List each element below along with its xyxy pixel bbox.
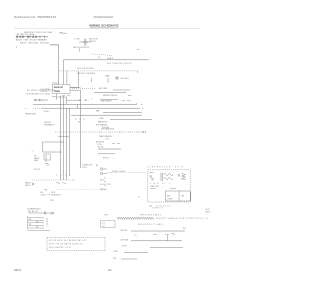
title underline (90, 27, 118, 29)
switch symbols (56, 183, 66, 184)
svg-text:YL-30: YL-30 (100, 189, 106, 191)
svg-text:START RELAY: START RELAY (112, 170, 127, 173)
plug marks column (104, 178, 107, 186)
freezer door switch S1 (79, 39, 91, 46)
svg-text:08/11: 08/11 (14, 268, 22, 272)
svg-text:-..=.: -..=. (31, 151, 34, 153)
stub mark (137, 49, 140, 51)
dashed evap feed (33, 107, 42, 109)
harness vertical 3 (66, 108, 68, 180)
connector box (44, 154, 51, 160)
svg-text:LT SW: LT SW (75, 38, 80, 40)
svg-text:SEE LIGHTING CIRCUIT: SEE LIGHTING CIRCUIT (107, 63, 132, 65)
wire cold control (41, 99, 48, 101)
cold control switch S2 (34, 99, 41, 101)
svg-text:RUN: RUN (167, 196, 170, 198)
relay marks (150, 188, 176, 190)
svg-text:DEF HTR: DEF HTR (121, 230, 128, 232)
svg-text:YL RD: YL RD (97, 144, 102, 146)
wire y90 (113, 89, 131, 91)
connector pin 1 (100, 168, 102, 170)
harness vertical 5 (80, 90, 82, 168)
vertical top ticks (62, 95, 70, 97)
connector pin 2 (100, 172, 102, 174)
svg-text:NO FROST COLD CONTROL: NO FROST COLD CONTROL (27, 90, 56, 92)
wire y149 (98, 148, 121, 150)
svg-text:DEF TSTAT: DEF TSTAT (121, 239, 129, 242)
svg-text:NOTE 3: NOTE 3 (103, 157, 109, 159)
power plug and cord P1 (16, 35, 48, 38)
relay pins (150, 176, 152, 178)
wire timer link (57, 97, 81, 104)
connector J2 (60, 32, 62, 34)
wire heater row (121, 258, 137, 260)
wire y92.4 (94, 92, 126, 94)
svg-text:COMPRESSOR NOTE: COMPRESSOR NOTE (147, 166, 184, 168)
svg-text:N-14: N-14 (40, 192, 43, 194)
wire y153.8 (98, 153, 115, 155)
svg-text:15 09 25 30 1: 15 09 25 30 1 (156, 205, 172, 207)
svg-text:WIRING DIAGRAM: WIRING DIAGRAM (77, 72, 95, 75)
svg-text:TMR 1: TMR 1 (84, 100, 89, 102)
svg-text:22 =: 22 = (134, 235, 137, 237)
wire left drop (42, 142, 44, 152)
svg-text:MOTOR HOLD SW THERMOSTAT HTR: MOTOR HOLD SW THERMOSTAT HTR (49, 239, 87, 242)
svg-text:DEFROST: DEFROST (54, 87, 64, 89)
svg-text:22A: 22A (149, 204, 152, 207)
svg-text:Publication No. 5995580743: Publication No. 5995580743 (14, 15, 56, 19)
svg-text:15 MFD: 15 MFD (167, 199, 173, 201)
svg-text:SEE NOTES 1 2 3 AND 5: SEE NOTES 1 2 3 AND 5 (138, 223, 164, 226)
wire defrost heater row (131, 230, 185, 232)
svg-text:L1 N: L1 N (105, 139, 109, 141)
defrost timer box U1 (53, 85, 71, 94)
terminal marks 2 (112, 143, 120, 145)
compressor dashed box (148, 170, 190, 202)
svg-text:START WINDING: START WINDING (99, 135, 112, 138)
svg-text:2=.-5: 2=.-5 (102, 223, 106, 225)
bracket (45, 164, 48, 167)
capacitor divider (178, 191, 180, 201)
dashed dispenser feed (59, 70, 138, 72)
water valve coil (32, 183, 34, 185)
wire y95.3 (128, 94, 132, 96)
svg-text:REF DOOR SWITCH: REF DOOR SWITCH (73, 47, 90, 49)
svg-text:WHITE NEUTRAL GROUND: WHITE NEUTRAL GROUND (20, 41, 50, 44)
terminal board TB1 (28, 216, 50, 231)
svg-text:CONNECTOR: CONNECTOR (82, 165, 93, 167)
svg-text:LIGHTS: LIGHTS (107, 58, 114, 60)
wire ice maker (45, 155, 47, 162)
svg-text:EVAPORATOR: EVAPORATOR (101, 100, 113, 103)
svg-text:NOTE 4: NOTE 4 (44, 111, 50, 113)
wire evaporator fan (33, 103, 137, 104)
svg-text:DEF: DEF (105, 214, 108, 216)
splice dot 2 (142, 108, 143, 109)
wire y247.3 (150, 246, 183, 248)
svg-text:.-3=1: .-3=1 (102, 225, 106, 227)
wire door switch drop (79, 48, 81, 51)
svg-text:BK WH OR: BK WH OR (96, 142, 105, 144)
bracket right (190, 192, 192, 201)
relay contact bars (149, 173, 162, 182)
svg-text:RUN WINDING: RUN WINDING (96, 125, 108, 127)
svg-text:FRZ LIGHT: FRZ LIGHT (121, 78, 129, 80)
svg-text:IN FREEZER CKT ONLY: IN FREEZER CKT ONLY (26, 94, 51, 96)
start winding coil (164, 174, 174, 176)
svg-text:HTR: HTR (113, 258, 117, 260)
svg-text:OL: OL (138, 197, 140, 199)
svg-text:BK WH GR 14GA: BK WH GR 14GA (17, 33, 35, 36)
svg-text:AUTO DEF: AUTO DEF (99, 87, 107, 90)
dashed relay feed (107, 172, 147, 174)
pin stubs (103, 169, 107, 174)
wire drop x167 (167, 235, 169, 241)
svg-text:4 3 2 1: 4 3 2 1 (56, 175, 72, 177)
svg-text:BK-5: BK-5 (183, 228, 186, 230)
dashed compressor feed (55, 131, 146, 133)
junction dot (15, 46, 18, 49)
svg-text:2: 2 (91, 99, 92, 101)
svg-text:TSTAT: TSTAT (113, 250, 118, 253)
svg-text:ICE: ICE (34, 156, 37, 158)
svg-text:PLUG: PLUG (82, 167, 87, 169)
svg-text:BLACK LINE CIRCUIT BREAKER: BLACK LINE CIRCUIT BREAKER (16, 39, 47, 42)
svg-text:NOTE 2: NOTE 2 (122, 246, 128, 248)
svg-text:COMP KIT: COMP KIT (152, 208, 163, 210)
dotted link (56, 188, 100, 190)
run capacitor box (166, 191, 191, 201)
svg-text:WH-14: WH-14 (206, 212, 211, 214)
wire timer out 1 (70, 86, 81, 88)
connector end (142, 131, 145, 133)
lamp tick 2 (91, 78, 93, 82)
svg-text:SWITCH: SWITCH (89, 41, 96, 43)
svg-text:WH BK GN: WH BK GN (28, 211, 38, 213)
svg-text:WIRING SCHEMATIC: WIRING SCHEMATIC (89, 23, 119, 27)
wire to timer (78, 71, 80, 88)
svg-text:BU GN: BU GN (98, 146, 104, 148)
svg-text:+ +: + + (42, 100, 44, 102)
dashed wire to dispenser (91, 54, 113, 56)
svg-text:COND: COND (99, 118, 105, 120)
wire long feed (42, 107, 140, 109)
harness vertical 1 (60, 96, 62, 180)
svg-text:4 PIN: 4 PIN (50, 200, 54, 202)
harness vertical 2 (63, 96, 65, 180)
harness vertical 4 (69, 108, 71, 176)
wire y142 (43, 141, 65, 143)
wire defrost limit row (131, 240, 182, 242)
svg-text:WH: WH (36, 221, 38, 223)
svg-text:START RUN: START RUN (150, 185, 159, 188)
svg-text:NOTE: NOTE (51, 192, 55, 194)
mold heater chain (28, 212, 54, 215)
svg-text:•••: ••• (25, 108, 27, 110)
wire neutral riser (63, 60, 65, 85)
svg-text:SEE DISPENSER: SEE DISPENSER (77, 68, 94, 70)
svg-text:SHUT OFF SW WATER VALVE SW: SHUT OFF SW WATER VALVE SW (49, 243, 83, 246)
svg-text:RD-09 COM: RD-09 COM (100, 184, 111, 186)
svg-text:PART OF HARNESS: PART OF HARNESS (41, 194, 62, 197)
tick marks (76, 118, 84, 120)
svg-text:WATER: WATER (25, 181, 31, 184)
ice maker dashed box (47, 238, 105, 251)
overload pin (178, 174, 180, 176)
wire into timer (52, 82, 59, 84)
wire switch drop (66, 71, 68, 85)
svg-text:OR-25: OR-25 (100, 179, 105, 181)
wire stub (63, 32, 67, 34)
dashed control feed (72, 88, 95, 90)
terminal marks (122, 99, 131, 101)
wire freezer light feed (64, 59, 149, 61)
svg-text:22: 22 (108, 268, 112, 272)
wire main vertical bus (58, 45, 60, 85)
wire hook (137, 71, 139, 73)
wire condenser fan (71, 114, 142, 116)
svg-text:S M R OL 5: S M R OL 5 (150, 183, 171, 185)
svg-text:N 4: N 4 (98, 57, 101, 59)
wire bracket (58, 135, 69, 137)
svg-text:BK-55: BK-55 (206, 209, 210, 211)
header rule (14, 28, 200, 30)
overload element (182, 174, 186, 180)
svg-text:ICE MAKER MOLD: ICE MAKER MOLD (27, 207, 42, 210)
svg-text:FAN: FAN (96, 110, 100, 113)
splice dot (141, 104, 142, 105)
svg-text:BK: BK (96, 165, 98, 167)
svg-text:DEFROST: DEFROST (44, 122, 52, 124)
defrost heater R1 zigzag (117, 217, 154, 219)
lamp L1 (116, 77, 119, 80)
svg-text:CAP: CAP (181, 195, 184, 198)
svg-text:LAMP: LAMP (105, 75, 110, 78)
wire y99.4 (100, 98, 118, 100)
timer drop wire (52, 94, 57, 101)
connector mark (44, 190, 47, 192)
wire line feed (50, 44, 59, 46)
dashed water valve feed (32, 179, 75, 181)
wire lamp drop (107, 78, 109, 84)
wire condenser feed (110, 119, 152, 121)
wire ticks (100, 131, 138, 133)
wire thermostat row (124, 251, 148, 253)
svg-text:FAN MOTOR: FAN MOTOR (98, 121, 108, 124)
svg-text:MOLD HEATER 125 W: MOLD HEATER 125 W (49, 246, 71, 249)
svg-text:DEFROST CIRCUIT: DEFROST CIRCUIT (103, 95, 118, 97)
dotted link arrow (101, 188, 108, 190)
svg-text:THERMOSTAT: THERMOSTAT (25, 113, 36, 116)
svg-text:SEE NOTES 2 AND 5: SEE NOTES 2 AND 5 (140, 213, 161, 216)
svg-text:GN: GN (29, 224, 31, 226)
svg-text:FILL SW: FILL SW (34, 169, 40, 171)
wire timer out 2 (70, 89, 81, 91)
run winding coil (164, 178, 174, 180)
note box (101, 221, 116, 228)
svg-text:BK: BK (29, 219, 31, 221)
svg-text:OR: OR (36, 226, 38, 228)
wire y112 (103, 111, 142, 113)
svg-text:DEFROST HEATER 450W 120VAC NOT: DEFROST HEATER 450W 120VAC NOTES 5 6 (156, 217, 209, 220)
svg-text:FPHS2G30LF: FPHS2G30LF (94, 15, 114, 19)
wire y152 (43, 151, 63, 153)
wire link drop (76, 105, 78, 109)
